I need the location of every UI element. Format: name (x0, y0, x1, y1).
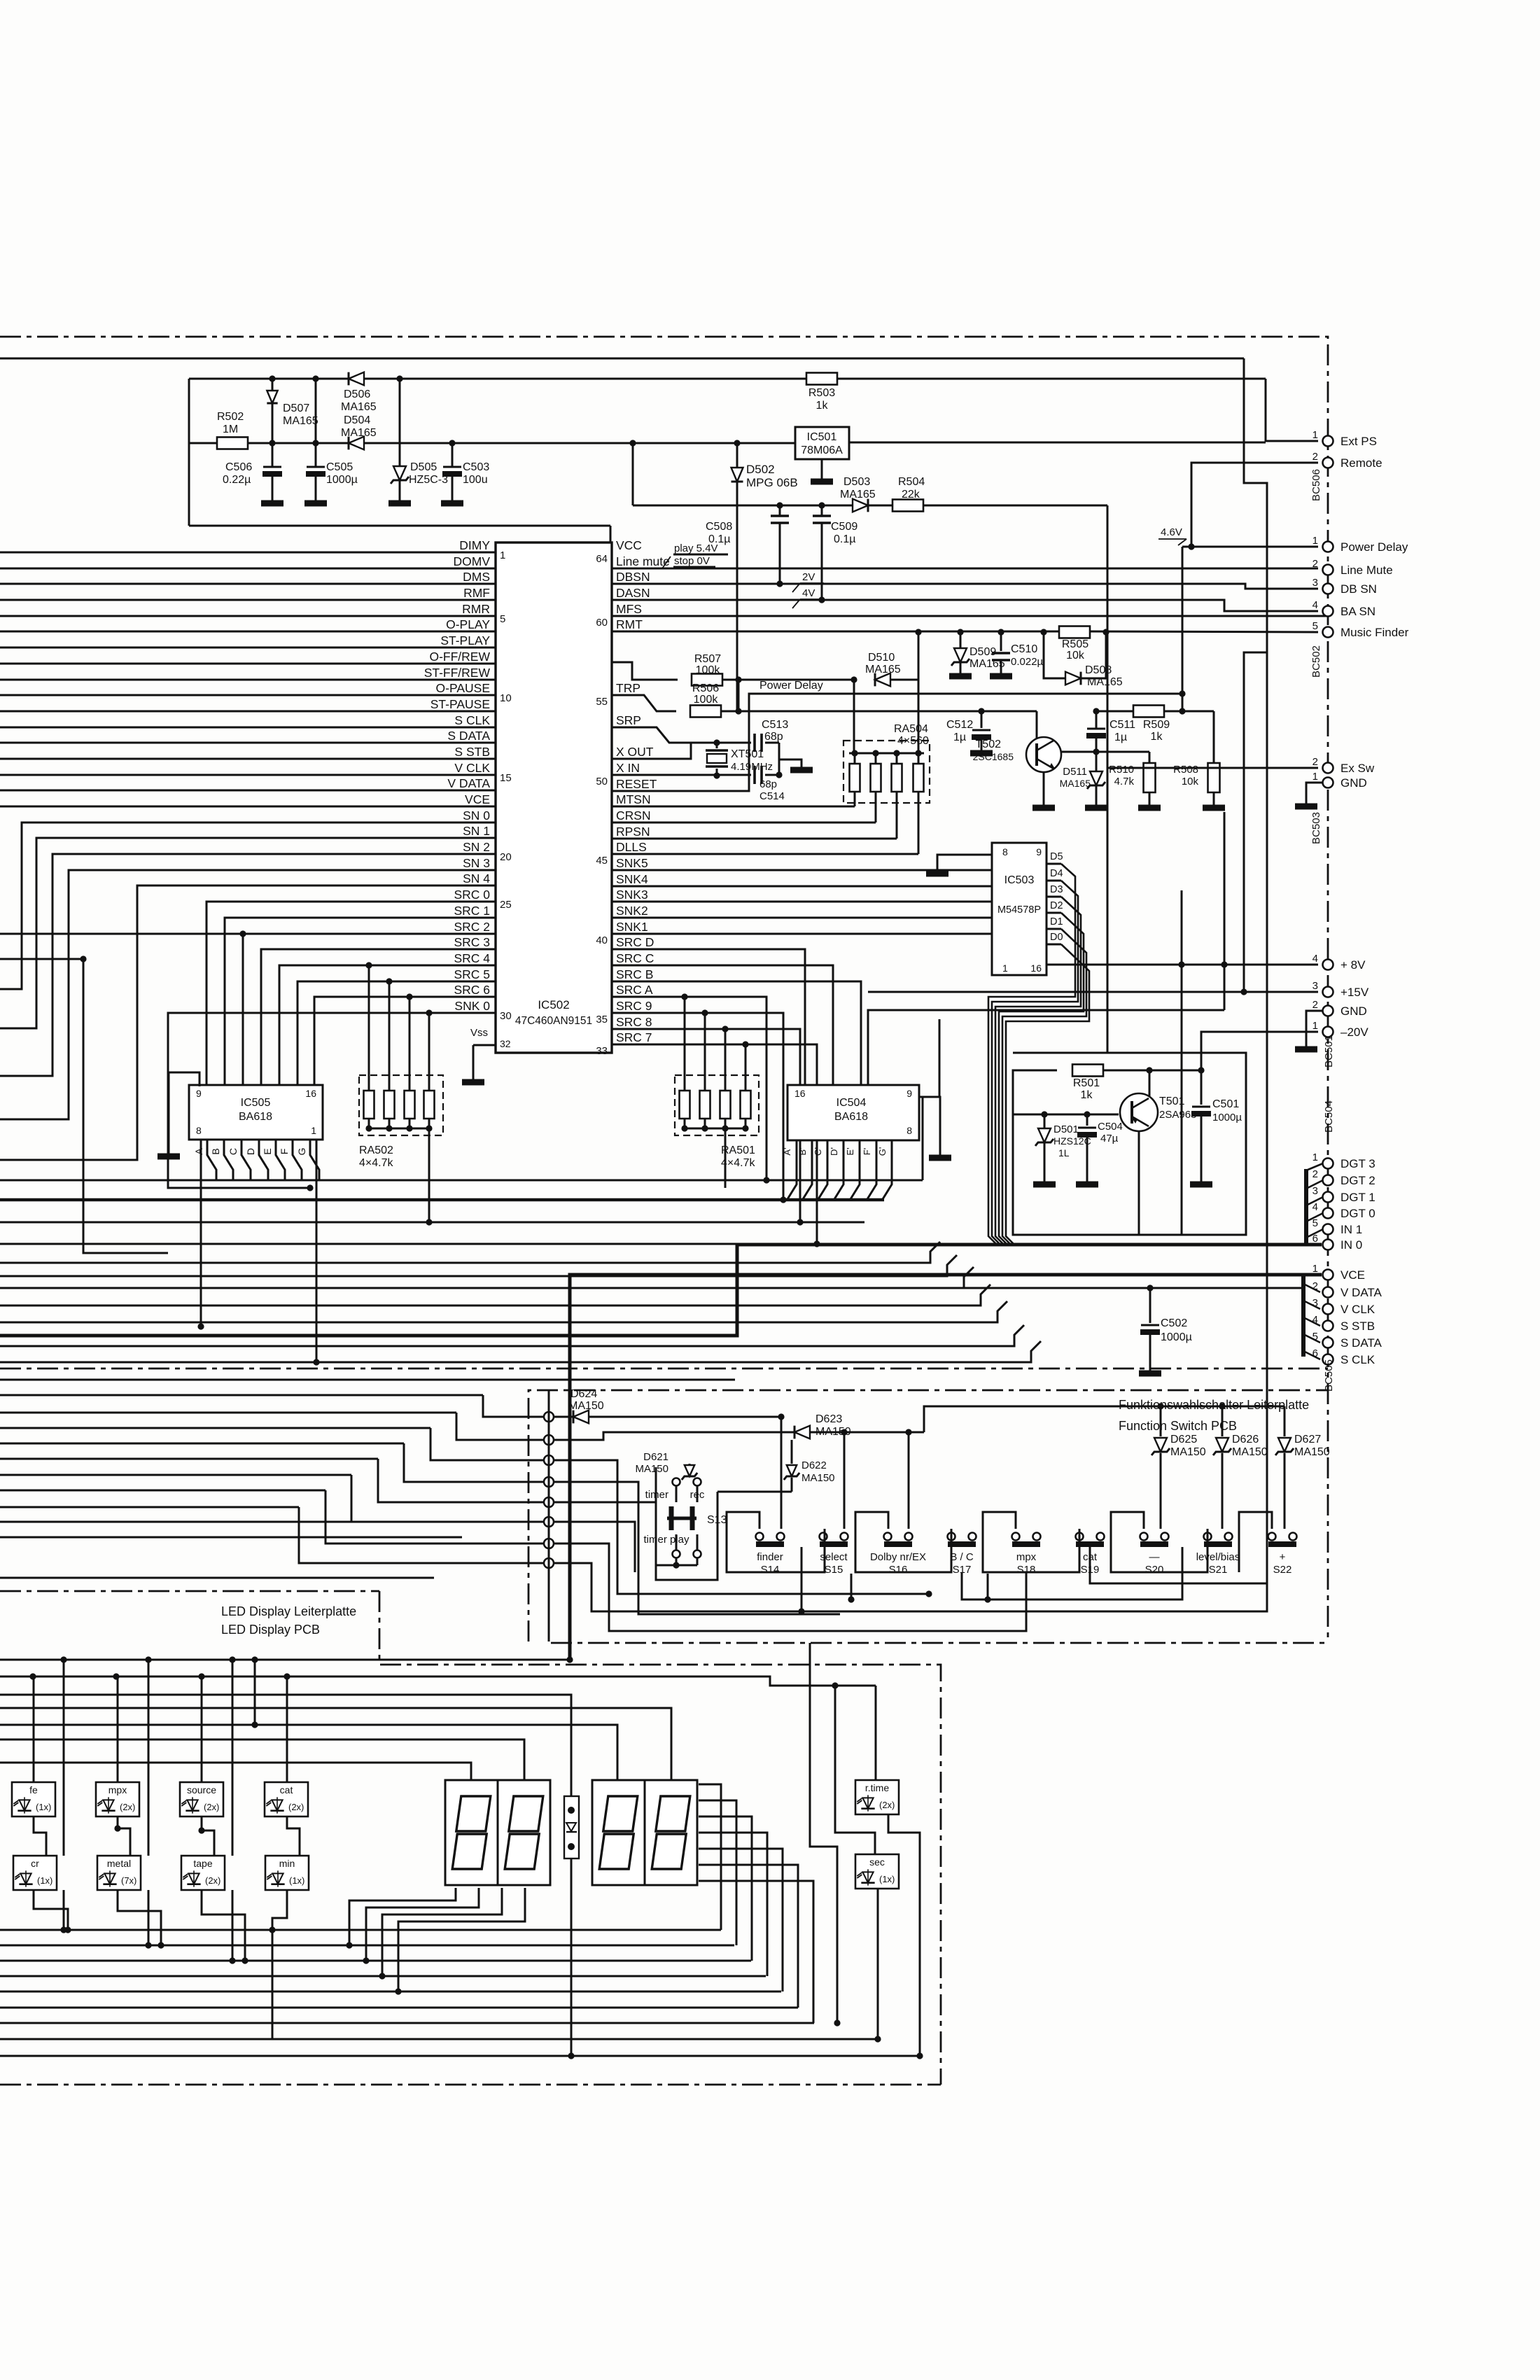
connector BC504 pin 6 IN 0 (1312, 1233, 1363, 1252)
capacitor C503 (442, 443, 489, 500)
wire (60, 1660, 66, 1933)
crystal XT501 (706, 743, 773, 779)
wire (924, 1403, 1284, 1432)
driver IC504 BA618 (787, 1085, 919, 1140)
wire MTSN (612, 801, 855, 806)
wire (0, 1673, 876, 1688)
wire (765, 743, 779, 776)
svg-text:SRC 4: SRC 4 (454, 951, 490, 965)
svg-text:2: 2 (1312, 451, 1318, 463)
driver IC505 BA618 (189, 1085, 323, 1140)
connector BC505 pin 2 V DATA (1312, 1280, 1382, 1299)
ground (1295, 1046, 1317, 1053)
svg-text:SNK3: SNK3 (616, 888, 648, 902)
wire D0-D5 bus (988, 864, 1089, 1245)
svg-text:D626: D626 (1232, 1434, 1259, 1445)
connector BC505 pin 1 VCE (1312, 1263, 1365, 1282)
svg-text:0.22µ: 0.22µ (223, 474, 251, 486)
svg-text:R509: R509 (1143, 719, 1170, 731)
wire loop (1013, 1053, 1246, 1235)
ground (1203, 805, 1225, 811)
svg-text:–20V: –20V (1340, 1025, 1368, 1039)
svg-text:20: 20 (500, 851, 512, 863)
svg-text:S STB: S STB (454, 745, 490, 759)
svg-text:D621: D621 (643, 1451, 668, 1463)
svg-text:D624: D624 (570, 1388, 597, 1400)
svg-text:D503: D503 (843, 476, 870, 488)
wire (198, 1676, 248, 1964)
wire pin57 (612, 662, 678, 680)
wire X OUT (612, 743, 691, 759)
ground (1033, 1182, 1056, 1188)
svg-text:SN 3: SN 3 (463, 856, 490, 870)
svg-text:tape: tape (193, 1858, 212, 1869)
svg-text:sec: sec (869, 1856, 885, 1868)
svg-text:RA504: RA504 (894, 723, 928, 735)
svg-text:D3: D3 (1050, 884, 1063, 895)
svg-text:8: 8 (906, 1125, 912, 1136)
svg-text:D506: D506 (344, 388, 370, 400)
LED indicator cat (265, 1782, 308, 1816)
svg-text:Music Finder: Music Finder (1340, 626, 1409, 639)
ground (1085, 805, 1107, 811)
svg-text:O-PAUSE: O-PAUSE (436, 681, 490, 695)
svg-text:timer: timer (645, 1489, 668, 1501)
wire (554, 1543, 1026, 1631)
wire (0, 1739, 524, 1781)
svg-text:M54578P: M54578P (997, 904, 1041, 916)
svg-text:SNK4: SNK4 (616, 872, 648, 886)
svg-text:E: E (262, 1148, 273, 1154)
connector BC503 pin 2 Ex Sw (1312, 756, 1375, 775)
svg-text:2: 2 (1312, 756, 1318, 768)
wire (855, 1512, 951, 1572)
svg-text:O-FF/REW: O-FF/REW (429, 650, 490, 664)
microcontroller IC502 (496, 542, 612, 1053)
connector label BC501 (1323, 1035, 1335, 1067)
wire (810, 1643, 841, 2026)
svg-text:R507: R507 (694, 653, 721, 665)
svg-text:(2x): (2x) (205, 1875, 220, 1886)
svg-text:DBSN: DBSN (616, 570, 650, 584)
connector BC504 pin 3 DGT 1 (1312, 1185, 1375, 1204)
svg-text:C501: C501 (1212, 1098, 1239, 1110)
svg-text:C509: C509 (831, 521, 857, 533)
wire base (1013, 1111, 1119, 1117)
svg-text:RMF: RMF (463, 586, 490, 600)
wire cable to BC504 (1306, 1163, 1323, 1245)
svg-text:5: 5 (1312, 1217, 1318, 1229)
svg-text:1000µ: 1000µ (1161, 1331, 1192, 1343)
wire (404, 1443, 549, 1482)
wire V DATA (964, 1284, 1303, 1291)
LED indicator sec (855, 1854, 899, 1889)
wire SRC 9 (612, 1013, 787, 1203)
svg-text:DGT 2: DGT 2 (1340, 1174, 1375, 1187)
voltage regulator IC501 (795, 427, 849, 459)
wire GND stub (1306, 1011, 1323, 1046)
svg-text:C512: C512 (946, 719, 973, 731)
connector label BC502 (1310, 645, 1322, 678)
svg-text:MA165: MA165 (341, 427, 377, 439)
svg-text:GND: GND (1340, 776, 1367, 790)
svg-text:68p: 68p (764, 731, 783, 743)
wire (251, 1660, 258, 1728)
svg-text:MA165: MA165 (865, 664, 901, 675)
svg-text:stop 0V: stop 0V (674, 555, 710, 567)
wire (1103, 1067, 1205, 1073)
wire SRC 8 (612, 1029, 804, 1226)
svg-text:level/bias: level/bias (1196, 1551, 1240, 1563)
svg-text:DMS: DMS (463, 570, 490, 584)
wire SRC 8 tap (722, 1025, 728, 1075)
wire (699, 1849, 783, 1991)
wire (145, 1660, 151, 1949)
wire (1090, 1546, 1267, 1583)
resistor R506 (690, 682, 721, 717)
svg-text:VCE: VCE (465, 792, 490, 806)
connector BC502 pin 4 BA SN (1312, 599, 1375, 618)
wire (0, 1341, 1041, 1362)
resistor R502 (217, 411, 248, 449)
zener diode D622 (717, 1440, 835, 1492)
wire segment line (0, 1097, 923, 1180)
svg-text:C514: C514 (759, 790, 785, 802)
svg-text:(2x): (2x) (204, 1802, 219, 1812)
wire SN 1 (0, 838, 496, 1028)
svg-text:Power Delay: Power Delay (1340, 540, 1408, 554)
wire IC505 pin 1 (313, 1140, 319, 1366)
svg-text:S CLK: S CLK (454, 713, 490, 727)
svg-text:D501: D501 (1053, 1123, 1079, 1135)
wire (0, 1490, 325, 1492)
svg-text:BC505: BC505 (1323, 1359, 1335, 1392)
svg-text:+15V: +15V (1340, 986, 1369, 999)
wire (699, 1833, 767, 1976)
wire (801, 1547, 803, 1611)
connector BC503 pin 1 GND (1312, 771, 1367, 790)
switch S21 (1196, 1533, 1240, 1576)
wire (0, 1443, 404, 1445)
wire (835, 1686, 875, 1854)
connector BC502 pin 1 Power Delay (1312, 535, 1408, 554)
wire (0, 1267, 974, 1288)
svg-text:16: 16 (305, 1088, 316, 1099)
svg-text:SRC 0: SRC 0 (454, 888, 490, 902)
svg-text:MPG 06B: MPG 06B (746, 476, 798, 489)
svg-text:V CLK: V CLK (454, 761, 490, 775)
wire SRP (612, 727, 691, 743)
svg-text:IC504: IC504 (836, 1097, 867, 1109)
svg-text:C508: C508 (706, 521, 732, 533)
ground (1138, 805, 1161, 811)
wire (1181, 890, 1183, 1235)
svg-text:S14: S14 (761, 1564, 780, 1576)
svg-text:SRC C: SRC C (616, 951, 654, 965)
svg-text:47C460AN9151: 47C460AN9151 (515, 1015, 592, 1027)
svg-text:Line mute: Line mute (616, 554, 670, 568)
svg-text:D510: D510 (868, 652, 895, 664)
svg-text:4: 4 (1312, 599, 1318, 611)
svg-text:33: 33 (596, 1045, 608, 1057)
wire SNK1 (612, 933, 992, 935)
wire (699, 1800, 736, 1945)
svg-text:metal: metal (107, 1858, 131, 1869)
connector BC501 pin 4 +8V (1312, 953, 1366, 972)
wire (811, 1429, 924, 1529)
svg-text:SRC 1: SRC 1 (454, 904, 490, 918)
wire colon cathode (568, 1885, 574, 2059)
wire SRC C (612, 965, 833, 1085)
svg-text:mpx: mpx (108, 1784, 127, 1795)
svg-text:BA618: BA618 (834, 1111, 868, 1123)
svg-text:4: 4 (1312, 1201, 1318, 1213)
capacitor C504 (1077, 1114, 1123, 1182)
svg-text:3: 3 (1312, 980, 1318, 992)
svg-text:T502: T502 (976, 738, 1002, 750)
svg-text:40: 40 (596, 934, 608, 946)
wire SNK5 (612, 869, 992, 871)
wire (0, 1221, 864, 1224)
svg-text:XT501: XT501 (731, 748, 764, 760)
wire IC505 pin 8 (197, 1140, 204, 1330)
svg-text:S CLK: S CLK (1340, 1353, 1375, 1366)
svg-text:D622: D622 (801, 1459, 827, 1471)
wire VCE bus (570, 1275, 1322, 1660)
svg-text:play 5.4V: play 5.4V (674, 542, 718, 554)
svg-text:HZ5C-3: HZ5C-3 (409, 474, 448, 486)
svg-text:V DATA: V DATA (447, 776, 490, 790)
ground (441, 500, 463, 507)
node play 5.4V / stop 0V (662, 542, 728, 568)
svg-text:1: 1 (311, 1125, 316, 1136)
svg-text:S20: S20 (1145, 1564, 1164, 1576)
wire (1164, 708, 1214, 763)
wire (0, 2055, 920, 2057)
wire (765, 759, 801, 778)
diode D510 (865, 652, 901, 686)
wire (114, 1676, 164, 1949)
connector BC505 pin 4 S STB (1312, 1314, 1375, 1333)
wire SNK2 (612, 917, 992, 919)
node 4V (792, 587, 824, 608)
wire (890, 632, 918, 680)
wire (363, 1888, 479, 1964)
svg-text:2SA963: 2SA963 (1159, 1109, 1196, 1121)
wire (0, 1945, 734, 1947)
wire SRC 6 tap (406, 993, 412, 1075)
svg-text:VCC: VCC (616, 538, 642, 552)
wire (554, 1522, 635, 1572)
wire SRC 2 (243, 934, 496, 1085)
zener diode D501 (1035, 1114, 1091, 1182)
svg-text:min: min (279, 1858, 295, 1869)
wire (1013, 1070, 1057, 1118)
svg-text:C506: C506 (225, 461, 252, 473)
svg-text:1000µ: 1000µ (1212, 1112, 1242, 1123)
wire (325, 1490, 549, 1543)
wire (1111, 1512, 1207, 1572)
svg-text:V DATA: V DATA (1340, 1286, 1382, 1299)
svg-text:C504: C504 (1098, 1121, 1123, 1133)
wire SRC 5 tap (386, 978, 392, 1075)
svg-text:C513: C513 (762, 719, 788, 731)
svg-text:VCE: VCE (1340, 1268, 1365, 1282)
svg-text:SRC 3: SRC 3 (454, 935, 490, 949)
connector label BC504 (1323, 1100, 1335, 1133)
svg-text:SRC 5: SRC 5 (454, 967, 490, 981)
wire SRC 7 (612, 1044, 820, 1247)
zener diode D625 (1151, 1406, 1206, 1529)
svg-text:D623: D623 (815, 1413, 842, 1425)
wire (554, 1563, 1267, 1615)
svg-text:64: 64 (596, 553, 608, 565)
diode D508 (1065, 664, 1123, 688)
svg-text:BC506: BC506 (1310, 469, 1322, 501)
svg-text:SRC 9: SRC 9 (616, 999, 652, 1013)
svg-text:1: 1 (1312, 1020, 1318, 1032)
svg-text:2: 2 (1312, 999, 1318, 1011)
svg-text:SRC D: SRC D (616, 935, 654, 949)
svg-text:ST-PLAY: ST-PLAY (440, 633, 490, 647)
capacitor C505 (306, 379, 358, 500)
svg-text:1000µ: 1000µ (326, 474, 358, 486)
svg-text:B: B (210, 1148, 221, 1154)
wire (0, 1379, 735, 1381)
wire IN 0 bus (0, 1245, 1322, 1336)
wire (554, 1482, 840, 1614)
svg-text:R502: R502 (217, 411, 244, 423)
svg-text:D511: D511 (1063, 766, 1087, 778)
ground (926, 871, 948, 877)
wire (0, 1521, 490, 1523)
PCB border (function switch PCB, dash-dot) (528, 1390, 1328, 1643)
svg-text:4.19MHz: 4.19MHz (731, 761, 773, 773)
resistor R501 (1072, 1065, 1103, 1102)
wire (589, 1413, 785, 1529)
ground (157, 1154, 180, 1160)
wire (0, 1427, 430, 1429)
wire via column (544, 1390, 554, 1641)
wire Remote (1188, 463, 1318, 550)
svg-text:C502: C502 (1161, 1317, 1187, 1329)
svg-text:55: 55 (596, 696, 608, 708)
wire (456, 1413, 549, 1440)
ground (949, 673, 972, 680)
svg-text:D505: D505 (410, 461, 437, 473)
svg-text:(1x): (1x) (879, 1874, 895, 1884)
wire (0, 1577, 434, 1579)
wire (0, 1536, 462, 1539)
svg-text:1: 1 (1312, 771, 1318, 783)
svg-text:G': G' (877, 1147, 888, 1156)
wire (0, 1394, 483, 1396)
svg-text:5: 5 (500, 613, 505, 625)
wire SN 0 (0, 822, 496, 989)
PCB border (LED display PCB, dash-dot) (0, 1591, 941, 2085)
ground (388, 500, 411, 507)
svg-text:Ex Sw: Ex Sw (1340, 762, 1375, 775)
svg-text:SNK5: SNK5 (616, 856, 648, 870)
ground (304, 500, 327, 507)
7-segment display seconds (592, 1780, 697, 1885)
svg-text:8: 8 (1002, 846, 1008, 857)
wire (269, 1676, 300, 2039)
connector BC501 pin 2 GND (1312, 999, 1367, 1018)
PCB label Function Switch (1119, 1398, 1309, 1433)
resistor R504 (892, 476, 925, 512)
ground (1190, 1182, 1212, 1188)
LED indicator r.time (855, 1780, 899, 1814)
svg-text:IN 1: IN 1 (1340, 1223, 1362, 1236)
svg-text:SRC 8: SRC 8 (616, 1015, 652, 1029)
wire IC505 pin 9 ground stub (169, 1072, 199, 1154)
wire SNK4 (612, 885, 992, 888)
svg-text:mpx: mpx (1016, 1551, 1037, 1563)
wire RESET / Power Delay (612, 680, 1186, 791)
svg-text:R501: R501 (1073, 1077, 1100, 1089)
switch S13 timer (643, 1467, 727, 1580)
wire (868, 505, 892, 507)
svg-text:SRC 2: SRC 2 (454, 920, 490, 934)
svg-text:SRC 6: SRC 6 (454, 983, 490, 997)
IC502 right pin labels (596, 538, 670, 1057)
svg-text:X IN: X IN (616, 761, 640, 775)
svg-text:4V: 4V (802, 587, 815, 599)
zener diode D621 (635, 1451, 697, 1480)
svg-text:(1x): (1x) (36, 1802, 51, 1812)
svg-text:D625: D625 (1170, 1434, 1197, 1445)
wire (1239, 1512, 1272, 1572)
svg-text:+: + (1280, 1551, 1286, 1563)
svg-text:SNK1: SNK1 (616, 920, 648, 934)
svg-text:DOMV: DOMV (454, 554, 491, 568)
diode D506 (341, 372, 377, 413)
svg-text:4×4.7k: 4×4.7k (721, 1157, 755, 1169)
wire SN 4 (0, 885, 496, 1160)
svg-text:Power Delay: Power Delay (759, 680, 823, 692)
wire (868, 812, 1224, 1085)
wire SNK 0 tap (426, 1009, 432, 1075)
wire SRC A (612, 997, 770, 1184)
svg-text:ST-FF/REW: ST-FF/REW (424, 666, 491, 680)
svg-text:O-PLAY: O-PLAY (446, 617, 490, 631)
svg-text:R508: R508 (1173, 764, 1198, 776)
wire (0, 1506, 299, 1508)
wire (229, 1660, 235, 1964)
svg-text:Line Mute: Line Mute (1340, 563, 1393, 577)
wire (874, 1889, 881, 2043)
svg-text:SN 1: SN 1 (463, 824, 490, 838)
switch S14 (756, 1533, 785, 1576)
svg-text:D1: D1 (1050, 916, 1063, 927)
svg-text:SN 0: SN 0 (463, 808, 490, 822)
svg-text:MA165: MA165 (283, 415, 318, 427)
wire SRC 3 (261, 949, 496, 1085)
wire SRC 6 (314, 997, 496, 1085)
svg-text:SRC 7: SRC 7 (616, 1030, 652, 1044)
svg-text:RA501: RA501 (721, 1144, 755, 1156)
connector BC504 pin 1 DGT 3 (1312, 1151, 1375, 1170)
svg-text:DGT 0: DGT 0 (1340, 1207, 1375, 1220)
wire (854, 632, 918, 753)
ground (1032, 772, 1055, 808)
svg-text:100u: 100u (463, 474, 488, 486)
svg-text:D: D (245, 1148, 256, 1155)
connector label BC506 (1310, 469, 1322, 501)
svg-text:MA165: MA165 (840, 489, 876, 500)
svg-text:1: 1 (1312, 535, 1318, 547)
